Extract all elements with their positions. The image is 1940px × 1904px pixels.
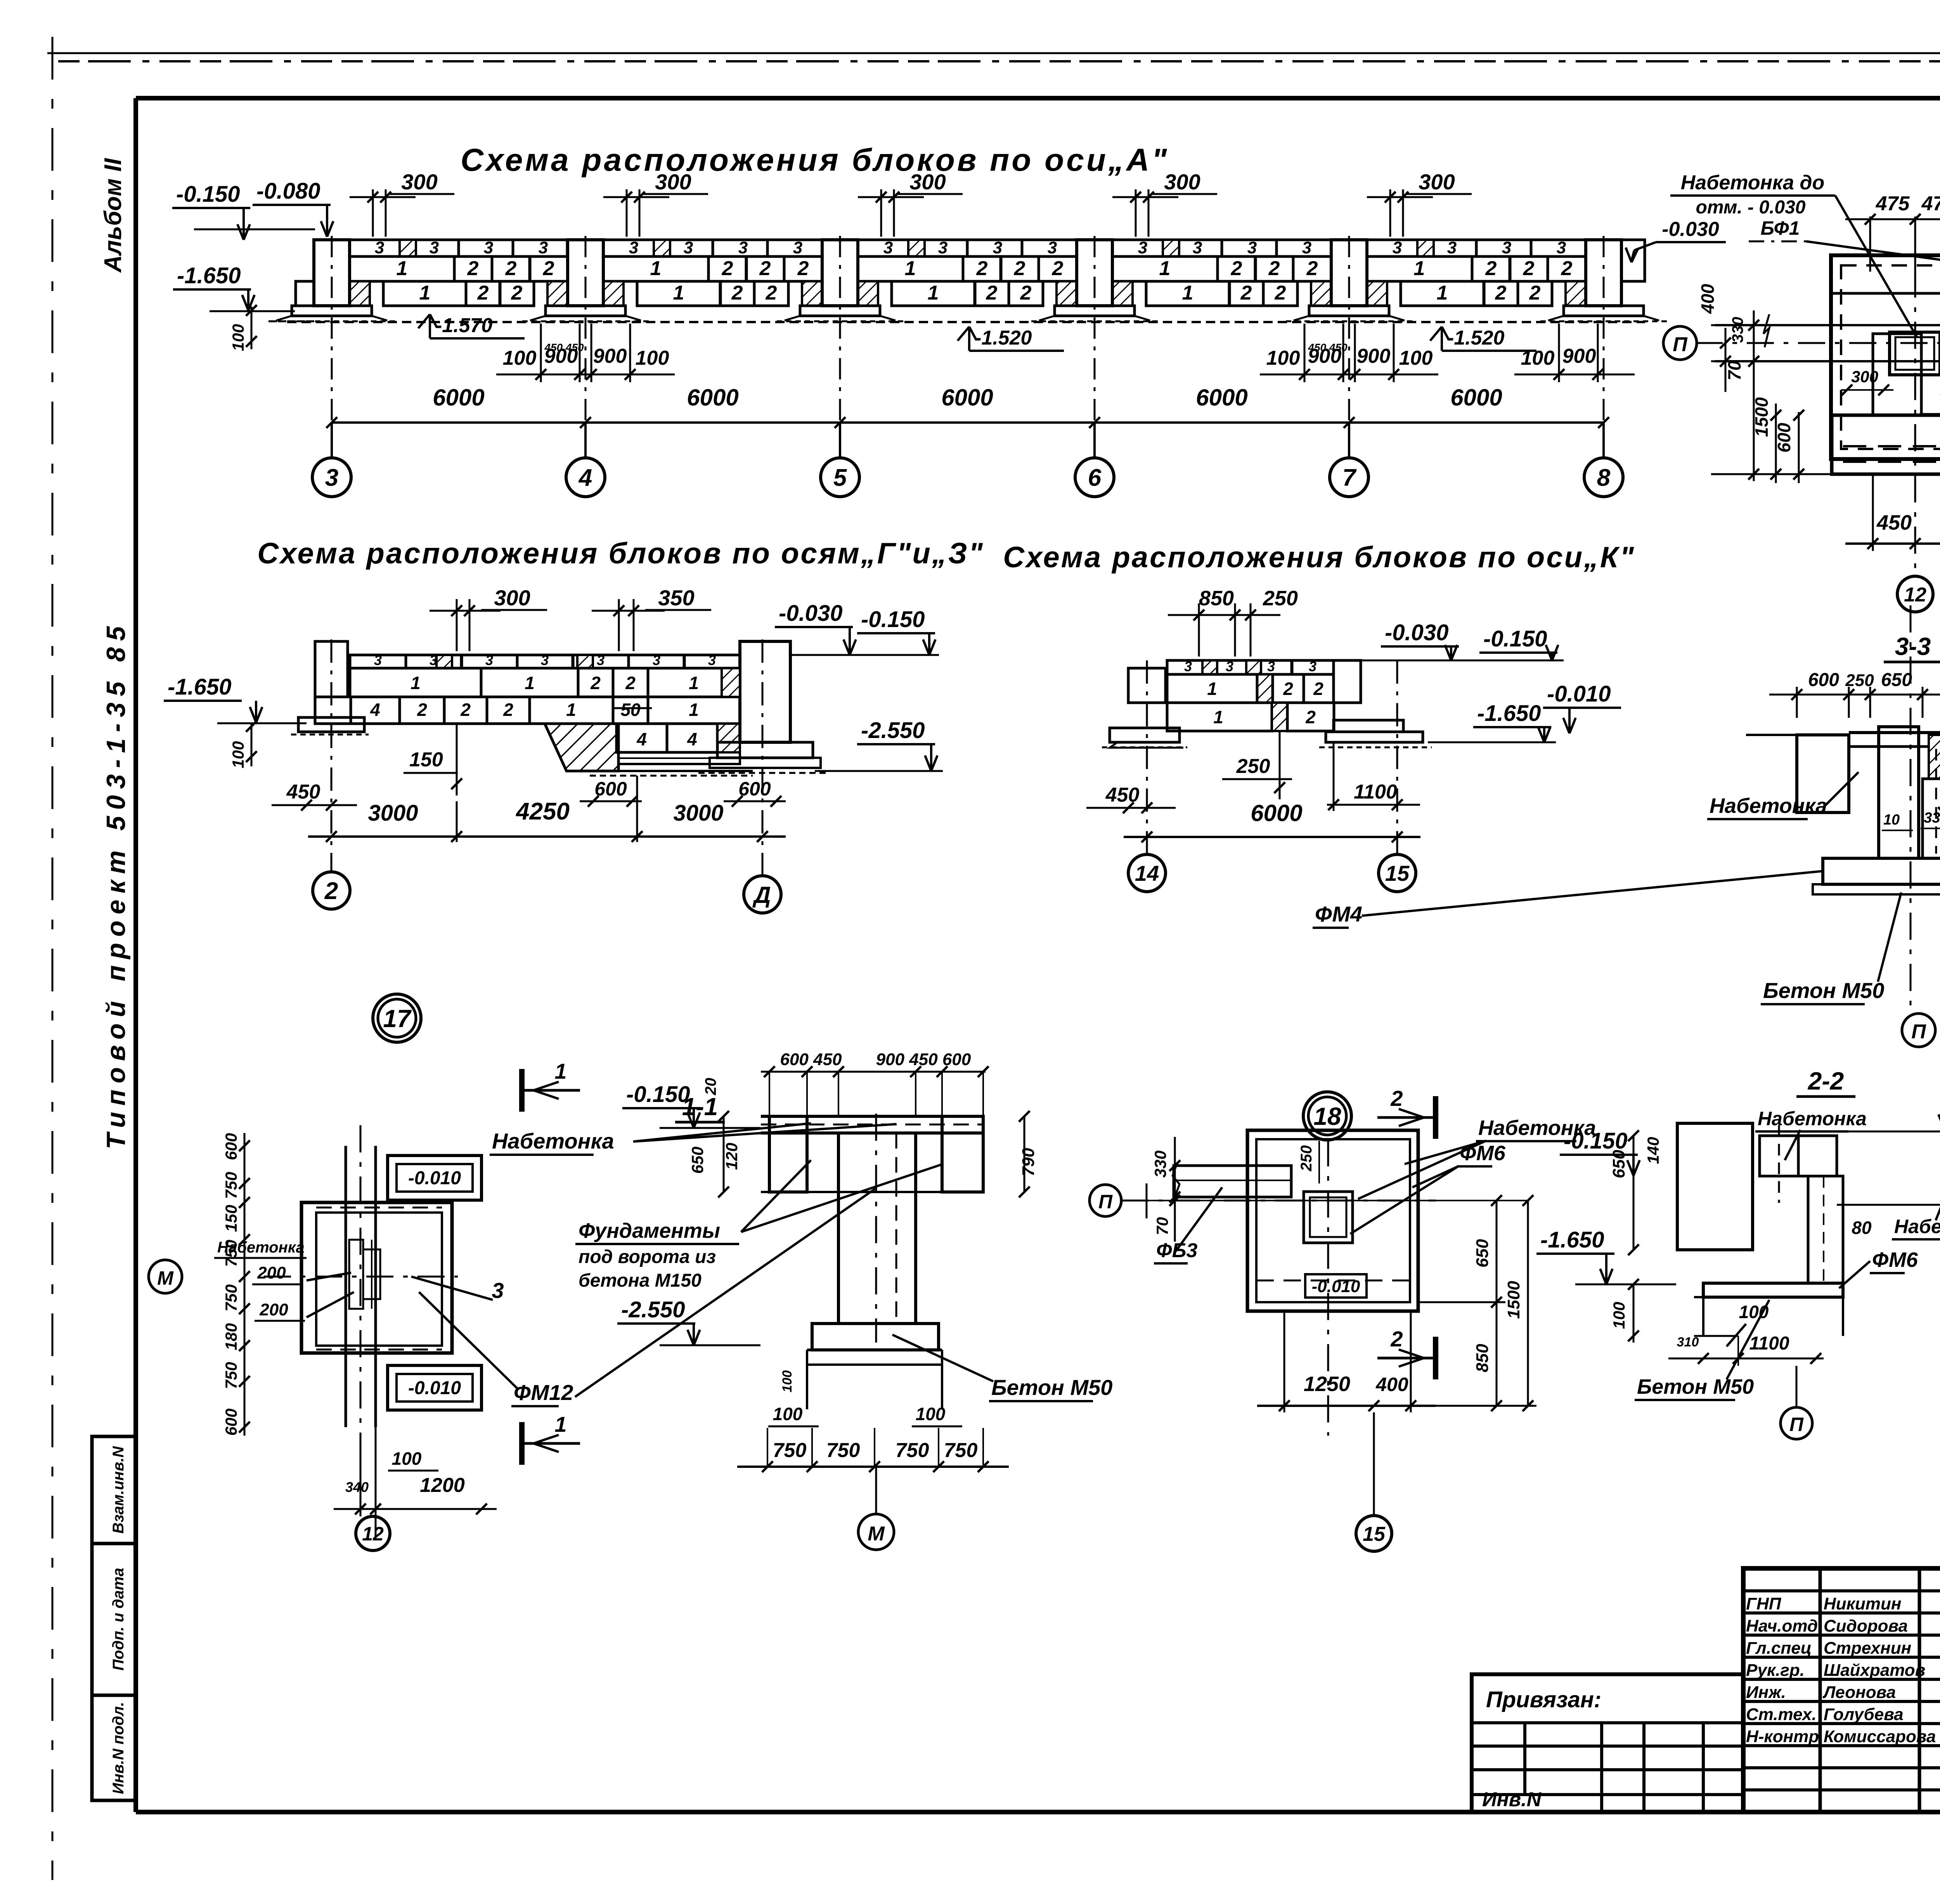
svg-text:650: 650 [1609,1150,1628,1178]
svg-text:750: 750 [222,1284,240,1311]
svg-text:бетона М150: бетона М150 [579,1270,702,1291]
svg-text:Леонова: Леонова [1822,1683,1896,1702]
svg-text:100: 100 [503,347,537,369]
svg-text:Рук.гр.: Рук.гр. [1746,1661,1805,1680]
svg-text:3: 3 [597,652,605,668]
svg-text:1: 1 [1437,282,1448,304]
svg-text:Стрехнин: Стрехнин [1824,1639,1911,1658]
svg-text:2: 2 [511,282,523,304]
svg-text:2: 2 [1052,257,1064,280]
svg-text:3: 3 [1557,238,1566,257]
svg-text:3: 3 [1393,238,1402,257]
svg-text:1500: 1500 [1504,1281,1523,1319]
svg-text:-1.520: -1.520 [975,327,1032,349]
svg-text:2: 2 [625,673,636,693]
svg-text:12: 12 [362,1523,384,1545]
svg-text:600: 600 [1774,423,1794,452]
svg-text:600: 600 [222,1409,240,1436]
svg-text:2: 2 [417,700,427,720]
svg-text:Набетонка до: Набетонка до [1681,172,1825,194]
svg-text:ФМ12: ФМ12 [514,1380,573,1405]
svg-text:100: 100 [916,1404,946,1424]
svg-text:3: 3 [1309,658,1316,674]
svg-text:1: 1 [566,700,576,720]
svg-text:Инв.N подл.: Инв.N подл. [110,1702,127,1794]
svg-text:120: 120 [722,1143,741,1170]
svg-text:4: 4 [636,729,647,749]
svg-text:150: 150 [409,748,443,771]
svg-text:2: 2 [590,673,601,693]
svg-text:900: 900 [1562,345,1596,367]
svg-text:Н-контр: Н-контр [1746,1727,1819,1746]
svg-text:2: 2 [1283,679,1293,699]
svg-text:2: 2 [722,257,733,280]
svg-text:2: 2 [976,257,988,280]
svg-text:900 450 600: 900 450 600 [876,1050,971,1069]
svg-text:3: 3 [1247,238,1257,257]
svg-text:3: 3 [1193,238,1202,257]
svg-text:3: 3 [1138,238,1147,257]
svg-text:-1.520: -1.520 [1447,327,1505,349]
svg-text:-1.650: -1.650 [168,674,231,700]
svg-text:300: 300 [909,170,946,194]
svg-text:1: 1 [419,282,431,304]
svg-text:3: 3 [1048,238,1057,257]
svg-text:100: 100 [1521,347,1555,369]
svg-text:2: 2 [986,282,998,304]
svg-text:1: 1 [1182,282,1193,304]
svg-text:750: 750 [896,1439,929,1462]
svg-text:Набетонка: Набетонка [1894,1216,1940,1237]
svg-text:850: 850 [1473,1344,1492,1372]
svg-text:475: 475 [1876,192,1910,215]
svg-text:Взам.инв.N: Взам.инв.N [110,1446,127,1533]
svg-text:3-3: 3-3 [1895,632,1931,660]
svg-text:-0.010: -0.010 [1547,681,1611,707]
svg-text:2: 2 [1390,1086,1403,1111]
svg-text:3: 3 [938,238,947,257]
svg-text:1250: 1250 [1304,1372,1350,1396]
svg-text:ФМ6: ФМ6 [1872,1248,1918,1272]
svg-text:П: П [1911,1020,1926,1043]
svg-text:3: 3 [430,238,439,257]
svg-text:Инв.N: Инв.N [1482,1788,1542,1811]
svg-text:10: 10 [1883,812,1900,828]
svg-text:400: 400 [1375,1374,1408,1395]
svg-text:2: 2 [1268,257,1280,280]
svg-text:450: 450 [286,781,320,803]
svg-text:Набетонка: Набетонка [217,1239,305,1256]
svg-text:100: 100 [1266,347,1300,369]
svg-text:3: 3 [541,652,549,668]
svg-text:Бетон М50: Бетон М50 [1637,1375,1754,1398]
svg-text:300: 300 [494,586,530,610]
svg-text:Ст.тех.: Ст.тех. [1746,1705,1817,1724]
svg-text:1: 1 [689,673,699,693]
svg-text:3: 3 [492,1278,504,1303]
svg-text:400: 400 [1697,284,1718,314]
svg-text:-1.650: -1.650 [1540,1227,1604,1253]
svg-text:Никитин: Никитин [1824,1594,1901,1613]
svg-text:ФМ6: ФМ6 [1460,1142,1506,1165]
svg-text:650: 650 [1881,670,1912,690]
svg-text:2: 2 [1306,257,1318,280]
svg-text:П: П [1098,1191,1113,1213]
svg-text:180: 180 [222,1323,240,1350]
svg-text:2: 2 [467,257,479,280]
svg-text:450 450: 450 450 [1308,341,1348,353]
svg-text:600: 600 [594,778,627,800]
svg-text:3: 3 [883,238,893,257]
svg-text:100: 100 [229,324,247,351]
svg-text:850: 850 [1199,587,1234,610]
svg-text:1: 1 [928,282,939,304]
svg-text:1: 1 [650,257,662,280]
svg-text:М: М [868,1523,885,1545]
svg-text:3: 3 [485,652,493,668]
svg-text:ФМ4: ФМ4 [1315,902,1362,926]
svg-text:БФ1: БФ1 [1761,217,1800,239]
svg-text:1: 1 [1159,257,1171,280]
svg-text:3: 3 [325,464,338,491]
svg-text:100: 100 [1399,347,1433,369]
svg-text:300: 300 [1164,170,1200,194]
svg-text:6000: 6000 [433,385,484,411]
svg-text:Шайхратов: Шайхратов [1824,1661,1925,1680]
svg-text:2: 2 [477,282,489,304]
svg-text:70: 70 [1153,1217,1171,1235]
svg-text:-1.650: -1.650 [177,263,241,288]
svg-text:1: 1 [905,257,916,280]
svg-text:750: 750 [222,1172,240,1199]
svg-text:3: 3 [1302,238,1311,257]
svg-text:50: 50 [620,700,641,720]
svg-text:1: 1 [397,257,408,280]
svg-text:100: 100 [773,1404,803,1424]
svg-text:-0.080: -0.080 [256,178,320,204]
svg-text:600: 600 [222,1133,240,1160]
svg-text:3: 3 [1184,658,1192,674]
svg-text:2: 2 [1305,707,1316,727]
svg-text:3000: 3000 [673,800,723,826]
svg-text:250: 250 [1845,671,1874,690]
svg-text:1: 1 [554,1412,566,1436]
svg-text:1: 1 [411,673,421,693]
svg-text:2: 2 [505,257,517,280]
svg-text:1: 1 [689,700,699,720]
svg-text:3: 3 [793,238,802,257]
svg-text:310: 310 [1677,1335,1699,1350]
svg-text:330: 330 [1924,810,1940,826]
svg-text:1: 1 [525,673,535,693]
svg-text:Подп. и дата: Подп. и дата [110,1568,127,1671]
svg-text:2: 2 [1231,257,1242,280]
svg-text:Бетон М50: Бетон М50 [1763,978,1884,1003]
svg-text:20: 20 [702,1078,719,1096]
svg-text:750: 750 [222,1362,240,1389]
svg-text:200: 200 [259,1300,288,1319]
svg-text:100: 100 [1739,1302,1769,1322]
svg-text:2: 2 [324,878,338,904]
svg-text:2: 2 [766,282,777,304]
svg-text:3: 3 [375,238,384,257]
svg-text:3: 3 [684,238,693,257]
svg-text:4250: 4250 [515,798,570,825]
svg-text:450: 450 [1876,511,1912,534]
svg-text:100: 100 [1610,1302,1628,1329]
svg-text:под ворота из: под ворота из [579,1247,716,1267]
svg-text:100: 100 [392,1448,422,1469]
svg-text:Гл.спец: Гл.спец [1746,1639,1812,1658]
svg-text:15: 15 [1385,861,1410,885]
svg-text:Набетонка: Набетонка [1710,794,1827,818]
svg-text:-0.030: -0.030 [1385,620,1448,645]
svg-text:15: 15 [1363,1523,1386,1545]
svg-text:790: 790 [1019,1148,1038,1176]
svg-text:250: 250 [1298,1145,1315,1172]
svg-text:2: 2 [1561,257,1573,280]
svg-text:2: 2 [1390,1327,1403,1351]
svg-text:-0.010: -0.010 [1312,1277,1360,1296]
svg-text:17: 17 [383,1005,412,1033]
svg-text:Нач.отд: Нач.отд [1746,1616,1818,1635]
svg-text:475: 475 [1921,192,1940,215]
svg-text:5: 5 [833,464,847,491]
svg-text:2: 2 [1523,257,1535,280]
svg-text:3: 3 [993,238,1002,257]
svg-text:200: 200 [257,1263,286,1282]
svg-text:2: 2 [460,700,471,720]
svg-text:3: 3 [1447,238,1457,257]
svg-text:4: 4 [687,729,697,749]
svg-text:2-2: 2-2 [1808,1067,1844,1095]
svg-text:-1.650: -1.650 [1477,701,1541,726]
svg-text:М: М [157,1267,174,1289]
svg-text:1: 1 [1213,707,1223,727]
svg-text:-0.150: -0.150 [861,607,925,632]
svg-text:-0.030: -0.030 [779,601,842,626]
svg-text:300: 300 [401,170,437,194]
svg-text:340: 340 [345,1479,369,1495]
svg-text:18: 18 [1313,1102,1341,1130]
svg-text:-0.030: -0.030 [1662,218,1719,241]
svg-text:2: 2 [503,700,513,720]
svg-text:300: 300 [1851,367,1878,386]
svg-text:-2.550: -2.550 [621,1297,685,1322]
svg-text:-0.010: -0.010 [408,1378,461,1398]
svg-text:Схема расположения блоков п: Схема расположения блоков по осям„Г"и„З" [257,537,984,570]
svg-text:Фундаменты: Фундаменты [579,1219,720,1242]
svg-text:140: 140 [1644,1137,1662,1164]
svg-text:2: 2 [759,257,771,280]
svg-text:650: 650 [1473,1239,1492,1268]
svg-text:3: 3 [1226,658,1233,674]
svg-text:7: 7 [1342,464,1357,491]
svg-text:Схема расположения блоков: Схема расположения блоков по оси„А" [461,142,1169,178]
svg-text:6: 6 [1088,464,1102,491]
svg-text:14: 14 [1135,861,1159,885]
svg-text:отм. - 0.030: отм. - 0.030 [1696,197,1806,218]
svg-text:6000: 6000 [687,385,738,411]
svg-text:2: 2 [1529,282,1541,304]
svg-text:6000: 6000 [1251,800,1302,826]
svg-text:1: 1 [554,1059,566,1083]
svg-text:П: П [1789,1414,1804,1435]
svg-text:3: 3 [484,238,493,257]
svg-text:2: 2 [1020,282,1032,304]
svg-text:Инж.: Инж. [1746,1683,1786,1702]
svg-text:-0.150: -0.150 [1564,1128,1627,1154]
svg-text:Привязан:: Привязан: [1486,1687,1601,1712]
svg-text:-0.150: -0.150 [1483,626,1547,651]
svg-text:330: 330 [1151,1150,1169,1178]
svg-text:450 450: 450 450 [544,341,584,353]
svg-text:2: 2 [1275,282,1286,304]
svg-text:1100: 1100 [1354,781,1397,803]
svg-text:1100: 1100 [1749,1333,1789,1354]
svg-text:300: 300 [655,170,691,194]
svg-text:2: 2 [731,282,743,304]
svg-text:250: 250 [1236,755,1270,778]
svg-text:2: 2 [543,257,554,280]
svg-text:900: 900 [593,345,627,367]
svg-text:Набетонка: Набетонка [1758,1108,1867,1130]
svg-text:Альбом II: Альбом II [100,158,126,273]
svg-text:2: 2 [1240,282,1252,304]
svg-text:900: 900 [1357,345,1391,367]
svg-text:150: 150 [222,1205,240,1232]
svg-text:600: 600 [738,778,771,800]
svg-text:2: 2 [1313,679,1323,699]
svg-text:Д: Д [752,882,771,908]
svg-text:12: 12 [1904,584,1926,606]
svg-text:6000: 6000 [1196,385,1247,411]
svg-text:100: 100 [780,1370,795,1393]
svg-text:-0.010: -0.010 [408,1168,461,1188]
svg-text:-1.570: -1.570 [435,314,493,337]
svg-text:750: 750 [826,1439,860,1462]
svg-text:-0.150: -0.150 [176,182,240,207]
svg-text:6000: 6000 [1450,385,1502,411]
svg-text:Схема расположения блоков п: Схема расположения блоков по оси„К" [1003,541,1635,574]
svg-text:100: 100 [636,347,669,369]
svg-text:6000: 6000 [941,385,993,411]
svg-text:300: 300 [1419,170,1455,194]
svg-text:Типовой проект 503-1-35 85: Типовой проект 503-1-35 85 [101,620,131,1149]
svg-text:ГНП: ГНП [1746,1594,1782,1613]
svg-text:П: П [1673,333,1688,356]
svg-text:330: 330 [1729,317,1746,343]
svg-text:2: 2 [1485,257,1497,280]
svg-text:80: 80 [1852,1218,1872,1238]
svg-text:1500: 1500 [1751,397,1772,437]
svg-text:3: 3 [629,238,638,257]
svg-text:3: 3 [653,652,660,668]
svg-text:3: 3 [708,652,716,668]
svg-text:1200: 1200 [420,1474,465,1497]
svg-text:3000: 3000 [368,800,418,826]
svg-text:3: 3 [1502,238,1511,257]
svg-text:3: 3 [738,238,748,257]
svg-text:4: 4 [370,700,380,720]
svg-text:Голубева: Голубева [1824,1705,1904,1724]
svg-text:Сидорова: Сидорова [1824,1616,1908,1635]
svg-text:4: 4 [578,464,592,491]
svg-text:2: 2 [1014,257,1025,280]
svg-text:Набетонка: Набетонка [492,1129,614,1153]
svg-text:650: 650 [688,1147,707,1174]
svg-text:-0.150: -0.150 [626,1082,690,1107]
svg-text:3: 3 [1267,658,1275,674]
svg-text:Комиссарова: Комиссарова [1824,1727,1936,1746]
svg-text:350: 350 [658,586,694,610]
svg-text:1: 1 [673,282,684,304]
svg-text:2: 2 [1495,282,1507,304]
svg-text:8: 8 [1597,464,1611,491]
svg-text:2: 2 [797,257,809,280]
svg-text:600: 600 [1808,670,1839,690]
svg-text:1: 1 [1414,257,1425,280]
svg-text:Бетон М50: Бетон М50 [991,1375,1112,1400]
svg-text:3: 3 [374,652,382,668]
svg-text:750: 750 [773,1439,807,1462]
svg-text:-2.550: -2.550 [861,718,925,743]
svg-text:100: 100 [229,741,247,768]
svg-text:70: 70 [1724,360,1744,381]
svg-text:1: 1 [1207,679,1217,699]
svg-text:750: 750 [944,1439,978,1462]
svg-text:250: 250 [1263,587,1298,610]
svg-text:3: 3 [539,238,548,257]
